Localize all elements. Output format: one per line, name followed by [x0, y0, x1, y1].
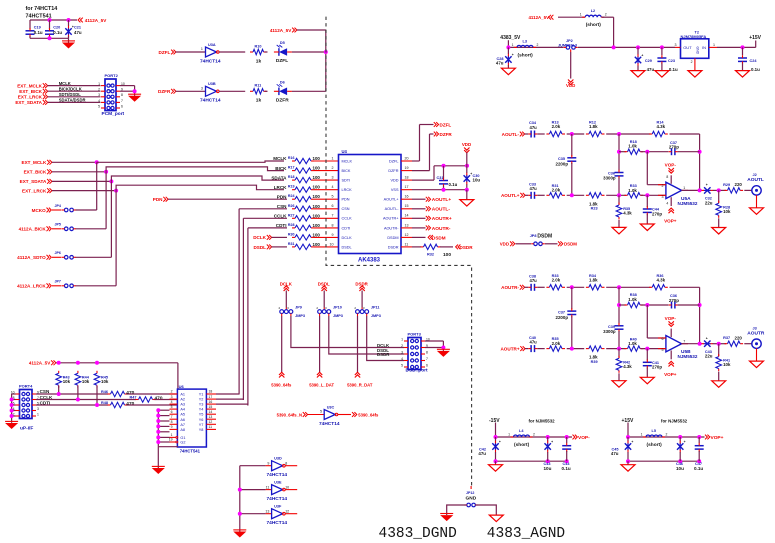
wire EXT_MCLK to PCM_port: [48, 85, 101, 87]
net label DSDL: [318, 282, 330, 291]
svg-text:6: 6: [121, 104, 123, 108]
svg-text:AOUTR: AOUTR: [747, 330, 765, 336]
svg-text:U3C: U3C: [327, 405, 335, 409]
svg-text:0.1u: 0.1u: [669, 67, 678, 72]
svg-text:2: 2: [332, 166, 334, 170]
svg-text:A7: A7: [180, 423, 185, 427]
svg-text:R26: R26: [288, 204, 295, 208]
svg-text:13: 13: [265, 510, 269, 514]
ground: [655, 71, 669, 78]
svg-text:1: 1: [508, 432, 510, 436]
wire pin stub: [314, 217, 339, 219]
svg-text:Y2: Y2: [199, 398, 204, 402]
svg-text:8: 8: [332, 223, 334, 227]
svg-text:EXT_BICK: EXT_BICK: [19, 89, 42, 94]
svg-text:100: 100: [313, 204, 321, 209]
junction: [617, 303, 621, 307]
svg-text:DCLK: DCLK: [253, 235, 266, 240]
svg-text:R19: R19: [288, 185, 295, 189]
junction: [698, 188, 702, 192]
net label 4112A_LRCK: [17, 283, 51, 288]
ground: [152, 466, 165, 474]
svg-text:VSS: VSS: [391, 188, 399, 192]
svg-text:DZFR: DZFR: [158, 89, 171, 94]
wire DZFR: [412, 170, 430, 172]
capacitor C21 (47u): [65, 25, 74, 37]
inverter U3E 74HCT14: [266, 480, 290, 502]
wire DSDM: [412, 236, 426, 238]
svg-text:Y8: Y8: [199, 428, 204, 432]
wire DSDL: [272, 246, 288, 248]
wire PDN: [168, 198, 287, 200]
wire 5V rail: [508, 46, 563, 48]
wire stub: [52, 209, 62, 211]
wire stub: [570, 49, 572, 52]
ground: [460, 200, 474, 207]
svg-text:0.1u: 0.1u: [562, 466, 571, 471]
wire 5V rail: [717, 46, 756, 48]
wire: [627, 461, 629, 465]
junction: [565, 435, 569, 439]
junction: [546, 435, 550, 439]
svg-text:CSN: CSN: [277, 204, 287, 209]
capacitor C32 (22u): [702, 183, 714, 193]
resistor R31 (2.0k): [546, 193, 565, 198]
svg-text:MCLK: MCLK: [342, 159, 353, 163]
svg-text:4112A_5V: 4112A_5V: [528, 15, 549, 20]
svg-text:47u: 47u: [478, 451, 486, 456]
wire CDTI to U6: [126, 404, 177, 406]
wire CCLK to U6: [155, 399, 178, 401]
svg-text:(short): (short): [647, 442, 663, 448]
svg-text:10k: 10k: [723, 362, 731, 367]
svg-text:47u: 47u: [611, 451, 619, 456]
svg-text:VOP+: VOP+: [711, 435, 724, 441]
junction: [617, 150, 621, 154]
wire to -in: [647, 337, 666, 339]
svg-text:11: 11: [209, 425, 213, 429]
wire stub out: [285, 489, 297, 491]
ground 4383_DGND: [440, 514, 453, 522]
svg-text:4: 4: [98, 99, 100, 103]
svg-text:2.0k: 2.0k: [552, 278, 561, 283]
svg-text:CDTI: CDTI: [342, 226, 351, 230]
svg-text:JMP3: JMP3: [333, 314, 343, 318]
svg-text:R23: R23: [591, 207, 598, 211]
resistor R11 (1k): [250, 89, 267, 94]
wire stub: [266, 513, 272, 515]
svg-text:8: 8: [426, 350, 428, 354]
wire: [571, 163, 573, 195]
svg-text:2: 2: [691, 60, 693, 64]
svg-text:A3: A3: [180, 403, 185, 407]
svg-text:AOUTR-: AOUTR-: [432, 226, 451, 232]
svg-text:11: 11: [405, 242, 409, 246]
junction: [156, 408, 160, 412]
power VOP-: [665, 316, 677, 327]
wire: [537, 286, 544, 288]
svg-text:74HCT541: 74HCT541: [180, 449, 201, 454]
wire stub: [285, 308, 287, 310]
svg-text:+: +: [512, 53, 514, 57]
junction: [10, 398, 14, 402]
wire: [698, 451, 700, 461]
net label 5390_R_DAT: [347, 372, 373, 387]
wire pin10 to ground: [120, 85, 135, 87]
wire stub: [470, 486, 472, 489]
net label EXT_SDATA: [15, 100, 47, 105]
wire: [558, 16, 585, 18]
wire: [646, 305, 648, 338]
svg-text:5390_64fs_N: 5390_64fs_N: [277, 412, 302, 417]
svg-text:R10: R10: [255, 44, 262, 48]
svg-text:+15V: +15V: [749, 35, 761, 41]
wire rail: [628, 436, 705, 438]
svg-text:R37: R37: [723, 336, 730, 340]
svg-text:1.8k: 1.8k: [589, 355, 598, 360]
net label DCLK: [280, 282, 293, 291]
net label DZFR: [434, 132, 453, 137]
net label AOUTL-: [502, 132, 525, 137]
svg-text:DSDM: DSDM: [537, 234, 552, 240]
wire: [240, 465, 266, 467]
capacitor C41 (270p): [643, 360, 652, 369]
svg-text:6: 6: [426, 363, 428, 367]
junction: [67, 18, 71, 22]
junction: [678, 459, 682, 463]
junction: [506, 45, 510, 49]
svg-text:17: 17: [209, 395, 213, 399]
svg-text:4112A_5V: 4112A_5V: [85, 18, 107, 23]
junction: [324, 50, 328, 54]
junction: [465, 164, 469, 168]
junction: [10, 409, 14, 413]
svg-text:3300p: 3300p: [603, 176, 616, 181]
svg-text:3: 3: [201, 87, 203, 91]
svg-text:VOP-: VOP-: [665, 316, 677, 321]
svg-text:VDD: VDD: [390, 179, 398, 183]
wire to 5390_R_DAT: [357, 316, 359, 373]
resistor R39 (1.8k): [586, 346, 605, 351]
svg-text:Y5: Y5: [199, 413, 204, 417]
wire: [613, 17, 615, 47]
resistor R35 (4.3k): [616, 203, 632, 220]
net label DSDR: [456, 245, 474, 250]
resistor R44 (10k): [75, 371, 90, 388]
resistor R34 (1.8k): [586, 285, 605, 290]
net label EXT_LRCK: [22, 188, 52, 193]
svg-text:Y3: Y3: [199, 403, 204, 407]
junction: [10, 414, 14, 418]
svg-text:MCKO: MCKO: [32, 208, 46, 213]
wire: [507, 65, 509, 68]
junction: [156, 430, 160, 434]
svg-text:for NJM5532: for NJM5532: [661, 418, 688, 423]
wire CCLK: [36, 399, 136, 401]
resistor R35 (2.0k): [546, 346, 565, 351]
svg-text:0.1u: 0.1u: [751, 67, 760, 72]
svg-text:BICK/DCLK: BICK/DCLK: [59, 86, 82, 91]
svg-text:EXT_MCLK: EXT_MCLK: [17, 83, 42, 88]
net label AOUTR-: [501, 285, 524, 290]
svg-text:PDN: PDN: [153, 197, 163, 202]
svg-text:C31: C31: [437, 176, 444, 180]
svg-text:16: 16: [209, 400, 213, 404]
ground: [688, 71, 702, 78]
wire: [134, 86, 136, 96]
junction: [565, 459, 569, 463]
svg-text:7: 7: [683, 340, 685, 344]
svg-text:G1: G1: [180, 436, 185, 440]
inverter U3F 74HCT14: [265, 505, 289, 527]
svg-text:DZFR: DZFR: [388, 169, 398, 173]
wire DSDR to PORT3: [367, 316, 404, 361]
svg-text:14: 14: [209, 410, 213, 414]
resistor R10 (1k): [250, 49, 267, 54]
ground: [128, 94, 141, 102]
wire rail: [496, 436, 573, 438]
svg-text:47u: 47u: [530, 125, 538, 130]
wire EXT_BICK to PCM_port: [48, 90, 101, 92]
svg-text:100: 100: [313, 223, 321, 228]
wire DCLK: [272, 236, 288, 238]
wire: [627, 452, 629, 461]
junction: [645, 193, 649, 197]
svg-text:22u: 22u: [705, 200, 713, 205]
connector PORT2 PCM_port: [98, 73, 125, 117]
net label DZFL: [434, 122, 452, 127]
svg-text:L3: L3: [523, 39, 527, 43]
wire: [12, 410, 16, 412]
svg-text:4: 4: [401, 357, 403, 361]
svg-text:5: 5: [332, 195, 334, 199]
wire: [567, 348, 585, 350]
wire: [440, 246, 453, 248]
svg-text:EXT_LRCK: EXT_LRCK: [18, 95, 43, 100]
svg-text:100: 100: [313, 175, 321, 180]
capacitor C47 (0.1u): [695, 443, 704, 452]
junction: [645, 303, 649, 307]
wire: [158, 409, 169, 411]
junction: [717, 188, 721, 192]
wire to U6 VCC: [177, 363, 179, 389]
wire vertical 5V: [325, 30, 327, 91]
ground: [612, 381, 626, 388]
capacitor C33 (47u): [528, 192, 537, 199]
wire: [158, 446, 178, 448]
svg-text:DZFL: DZFL: [440, 122, 452, 127]
svg-text:EXT_MCLK: EXT_MCLK: [22, 160, 47, 165]
resistor R38 (1.0k): [625, 302, 644, 307]
net label 4112A_5V: [528, 15, 553, 20]
junction: [95, 361, 99, 365]
svg-text:+: +: [641, 54, 643, 58]
wire: [606, 133, 650, 135]
wire: [678, 304, 700, 306]
wire pin10 gnd: [425, 340, 443, 342]
svg-text:DZFR: DZFR: [440, 132, 453, 137]
svg-text:U3F: U3F: [274, 505, 282, 509]
wire to ground: [466, 190, 468, 200]
svg-text:J2: J2: [753, 173, 757, 177]
svg-text:Y6: Y6: [199, 418, 204, 422]
svg-text:R17: R17: [288, 166, 295, 170]
capacitor C36 (3300p): [615, 170, 624, 179]
svg-text:DSDM: DSDM: [387, 236, 398, 240]
svg-text:100: 100: [313, 156, 321, 161]
ground: [437, 349, 450, 357]
junction: [570, 193, 574, 197]
wire stub: [323, 308, 325, 310]
svg-text:GND: GND: [695, 47, 699, 55]
ground: [750, 361, 764, 368]
svg-text:1.0k: 1.0k: [628, 144, 637, 149]
svg-text:19: 19: [169, 438, 173, 442]
svg-text:1.0k: 1.0k: [628, 341, 637, 346]
wire unused input tie: [157, 410, 159, 447]
dashed boundary digital/analog: [326, 17, 472, 486]
wire stub: [361, 308, 363, 310]
svg-text:1: 1: [171, 433, 173, 437]
net label DSDR: [355, 282, 368, 291]
svg-text:EXT_SDATA: EXT_SDATA: [20, 179, 47, 184]
wire: [158, 436, 169, 438]
net label EXT_LRCK: [18, 94, 48, 99]
ground: [640, 377, 654, 384]
svg-text:13: 13: [209, 415, 213, 419]
power VDD: [462, 142, 471, 153]
svg-text:1: 1: [332, 156, 334, 160]
inductor L2 (short): [580, 9, 607, 28]
svg-text:AK4383: AK4383: [358, 258, 381, 264]
svg-text:PDN: PDN: [342, 198, 350, 202]
svg-text:R11: R11: [255, 84, 262, 88]
capacitor C39 (3300p): [615, 323, 624, 332]
wire: [49, 36, 51, 38]
capacitor C30 (10u): [464, 172, 473, 184]
wire: [495, 423, 497, 438]
svg-text:VDD: VDD: [566, 83, 575, 88]
wire pin stub: [314, 208, 339, 210]
svg-text:0.1u: 0.1u: [449, 182, 458, 187]
wire: [495, 437, 497, 442]
wire: [323, 291, 325, 308]
wire CSN: [239, 208, 287, 210]
wire: [158, 415, 169, 417]
wire 4112A_SDTO: [76, 256, 112, 258]
svg-text:13: 13: [405, 223, 409, 227]
junction: [156, 435, 160, 439]
net label AOUTL-: [426, 206, 451, 212]
svg-text:VOP+: VOP+: [664, 372, 677, 377]
wire: [158, 425, 169, 427]
power VOP+: [664, 208, 677, 224]
svg-text:AOUTR+: AOUTR+: [383, 217, 399, 221]
svg-text:R18: R18: [288, 175, 295, 179]
resistor R27 (100): [292, 216, 314, 221]
ground: [750, 208, 764, 215]
wire stub: [319, 314, 321, 317]
wire: [12, 393, 16, 395]
wire to +in: [641, 194, 666, 196]
ground: [640, 224, 654, 231]
wire EXT_LRCK to PCM_port: [48, 96, 101, 98]
svg-text:470: 470: [155, 395, 163, 401]
svg-text:10k: 10k: [723, 209, 731, 214]
resistor R17 (100): [292, 168, 314, 173]
wire: [443, 186, 445, 190]
capacitor C24 (0.1u): [738, 55, 747, 64]
net label AOUTL+: [426, 197, 452, 203]
wire pin stub: [314, 198, 339, 200]
svg-text:3: 3: [675, 43, 677, 47]
svg-text:R30: R30: [288, 232, 295, 236]
svg-text:2.0k: 2.0k: [552, 124, 561, 129]
wire: [466, 184, 468, 190]
svg-text:100: 100: [313, 194, 321, 199]
svg-text:74HCT541: 74HCT541: [26, 14, 52, 20]
junction: [660, 45, 664, 49]
svg-text:C35: C35: [558, 157, 565, 161]
capacitor C35 (2200p): [567, 155, 576, 164]
svg-text:uP-I/F: uP-I/F: [20, 425, 33, 431]
svg-text:220: 220: [735, 182, 743, 187]
junction: [617, 285, 621, 289]
svg-text:+: +: [684, 440, 686, 444]
wire 5V rail: [56, 362, 178, 364]
wire: [361, 291, 363, 308]
junction: [57, 392, 61, 396]
svg-text:6: 6: [662, 337, 664, 341]
wire bottom rail: [628, 460, 699, 462]
svg-text:4112A_BICK: 4112A_BICK: [19, 227, 47, 232]
svg-text:470: 470: [126, 401, 134, 407]
wire to +in: [641, 348, 666, 350]
ground: [712, 228, 726, 235]
svg-text:5: 5: [662, 348, 664, 352]
svg-text:AOUTL-: AOUTL-: [432, 207, 451, 213]
wire: [49, 20, 51, 29]
net label EXT_SDATA: [20, 179, 52, 184]
svg-text:12: 12: [285, 510, 289, 514]
svg-text:SDTI/DSDL: SDTI/DSDL: [59, 92, 82, 97]
svg-text:15: 15: [405, 204, 409, 208]
wire: [567, 194, 585, 196]
svg-text:VOP-: VOP-: [578, 435, 590, 441]
wire: [68, 36, 70, 38]
wire: [443, 166, 445, 179]
svg-text:270p: 270p: [669, 145, 679, 150]
svg-text:CCLK: CCLK: [342, 217, 353, 221]
junction: [441, 346, 445, 350]
inverter U3D 74HCT14: [267, 457, 288, 479]
wire: [507, 40, 509, 47]
svg-text:6: 6: [332, 204, 334, 208]
wire: [618, 195, 620, 204]
svg-text:3: 3: [37, 407, 39, 411]
wire LED to 5V: [292, 51, 326, 53]
wire: [698, 437, 700, 443]
wire: [265, 90, 268, 92]
svg-text:JP8: JP8: [530, 234, 537, 238]
svg-text:+: +: [551, 440, 553, 444]
junction EXT_MCLK: [95, 160, 99, 164]
wire: [242, 398, 244, 401]
wire feedback vertical: [699, 134, 701, 190]
wire: [618, 178, 620, 196]
wire to -in: [647, 184, 666, 186]
svg-text:DSDR: DSDR: [377, 352, 390, 357]
